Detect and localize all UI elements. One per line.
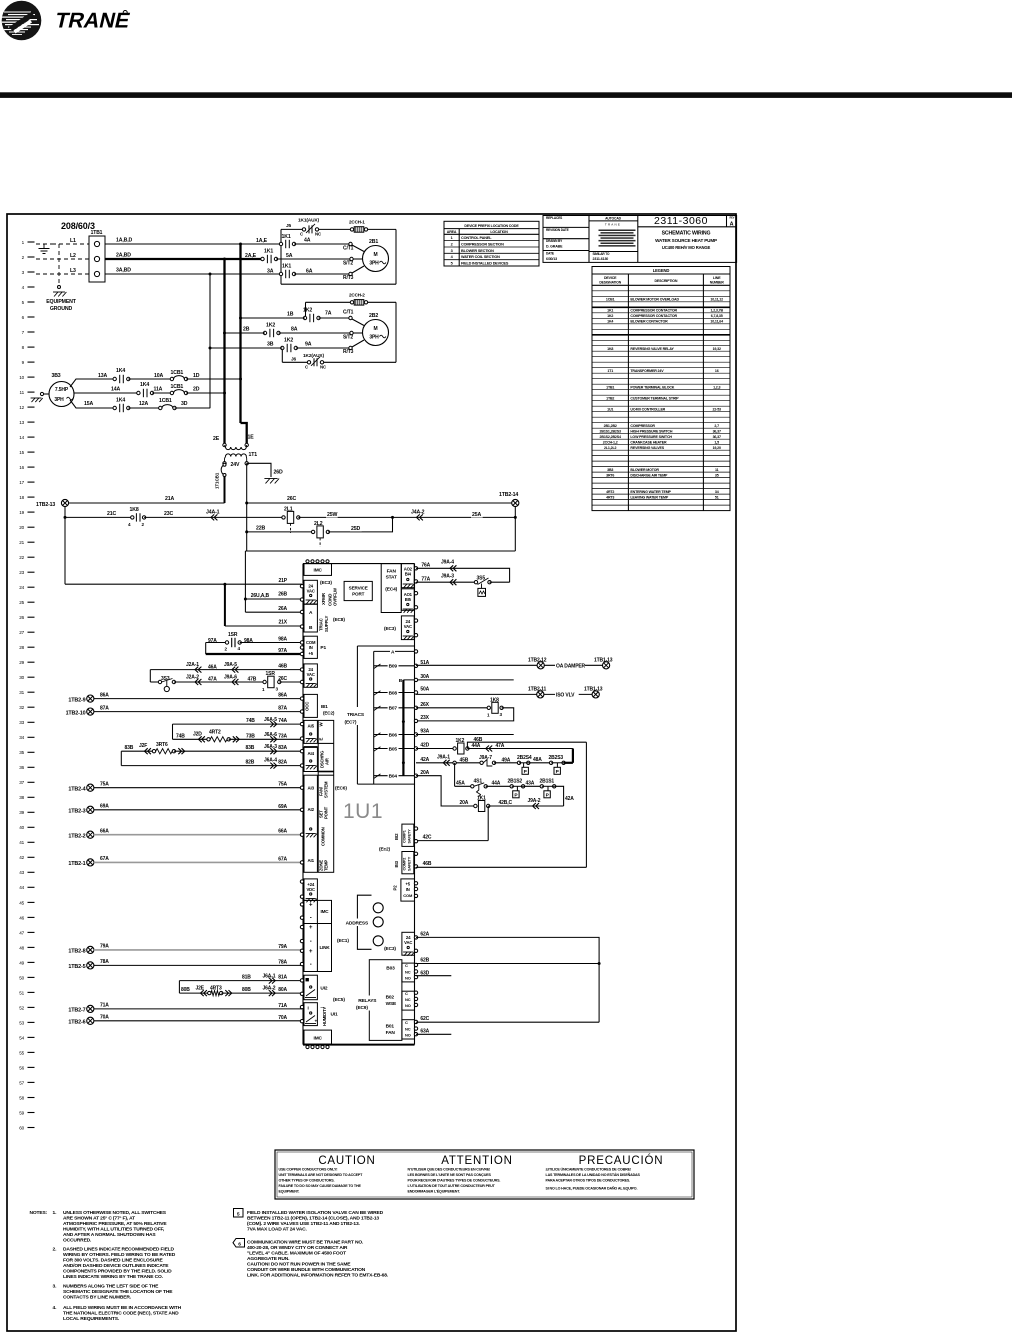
svg-text:35: 35 <box>19 750 24 755</box>
port IMC LINK <box>300 900 331 971</box>
address switches <box>345 895 384 949</box>
svg-text:20: 20 <box>19 525 24 530</box>
svg-text:5A: 5A <box>286 253 293 259</box>
svg-text:1K2: 1K2 <box>303 308 312 314</box>
svg-text:TEMP: TEMP <box>324 860 329 871</box>
svg-text:PRECAUCIÓN: PRECAUCIÓN <box>579 1154 664 1167</box>
svg-text:NO: NO <box>405 1003 411 1008</box>
triac B05 wire 42D <box>374 743 430 753</box>
svg-text:N'UTILISER QUE DES CONDUCTEURS: N'UTILISER QUE DES CONDUCTEURS EN CUIVRE… <box>408 1168 491 1172</box>
wire 6A to R/T3 <box>267 266 364 281</box>
svg-text:26B: 26B <box>278 592 287 598</box>
svg-text:B04: B04 <box>389 774 398 780</box>
svg-text:51: 51 <box>715 495 719 499</box>
triacs box EC7 <box>345 646 415 784</box>
svg-text:1TB2-14: 1TB2-14 <box>499 492 518 498</box>
svg-text:18: 18 <box>19 495 24 500</box>
svg-text:DEVICE: DEVICE <box>604 276 617 280</box>
wire 63A stub <box>416 1028 451 1034</box>
svg-text:2L1: 2L1 <box>284 507 293 513</box>
svg-text:CRANKCASE HEATER: CRANKCASE HEATER <box>630 440 667 444</box>
svg-text:DRAWN BY: DRAWN BY <box>546 239 563 243</box>
svg-text:COMMUNICATION WIRE MUST BE TRA: COMMUNICATION WIRE MUST BE TRANE PART NO… <box>247 1240 364 1246</box>
svg-text:BLOWER MOTOR OVERLOAD: BLOWER MOTOR OVERLOAD <box>630 298 679 302</box>
wire 15A line 12 <box>70 400 115 408</box>
svg-text:1T1: 1T1 <box>249 452 258 458</box>
svg-text:J6: J6 <box>291 357 297 363</box>
svg-text:38: 38 <box>19 795 24 800</box>
svg-text:D. GRABE: D. GRABE <box>546 245 563 249</box>
note 5 flag <box>234 1209 384 1233</box>
svg-text:A: A <box>730 221 734 227</box>
svg-text:14A: 14A <box>111 387 120 393</box>
breaker 1CB1 line 10 <box>170 370 188 381</box>
wire 1T1CB1 to 21A <box>224 477 226 504</box>
wire 81A loop <box>179 974 302 994</box>
svg-text:1TB2: 1TB2 <box>606 396 614 400</box>
svg-text:AUTOCAD: AUTOCAD <box>605 216 622 220</box>
wire 5A to S/T2 <box>245 253 363 267</box>
svg-text:77A: 77A <box>421 576 430 582</box>
svg-text:2B1S1: 2B1S1 <box>540 778 555 784</box>
terminal 1TB2-11 <box>537 691 544 698</box>
wire 1A,B,D line 1 <box>105 238 281 246</box>
svg-text:44: 44 <box>19 885 24 890</box>
svg-text:2B1S2: 2B1S2 <box>508 778 523 784</box>
svg-text:HUMIDITY, WITH ALL UTILITIES T: HUMIDITY, WITH ALL UTILITIES TURNED OFF, <box>63 1227 165 1233</box>
svg-text:20A: 20A <box>420 770 429 776</box>
svg-text:4RT2: 4RT2 <box>209 730 221 736</box>
svg-text:78A: 78A <box>100 959 109 965</box>
svg-text:BI4: BI4 <box>405 572 412 577</box>
temp sensor 4RT3 row 80B <box>179 985 302 996</box>
svg-text:WIRING BY OTHERS. FIELD WIRING: WIRING BY OTHERS. FIELD WIRING TO BE RAT… <box>63 1252 176 1258</box>
svg-text:50: 50 <box>19 975 24 980</box>
svg-text:3S5: 3S5 <box>477 575 486 581</box>
svg-text:62B: 62B <box>420 958 429 964</box>
svg-text:70A: 70A <box>100 1015 109 1021</box>
svg-text:3A,BD: 3A,BD <box>116 268 131 274</box>
svg-text:WATER COIL SECTION: WATER COIL SECTION <box>461 255 500 259</box>
svg-text:15: 15 <box>19 450 24 455</box>
svg-text:LEAVING WATER TEMP: LEAVING WATER TEMP <box>630 495 668 499</box>
wire 1D <box>186 373 241 379</box>
svg-text:2B1S2,2B2S4: 2B1S2,2B2S4 <box>600 435 621 439</box>
svg-text:1U1: 1U1 <box>607 407 613 411</box>
svg-text:DESIGNATION: DESIGNATION <box>599 281 621 285</box>
svg-text:FOR 300 VOLTS. DASHED LINE ENC: FOR 300 VOLTS. DASHED LINE ENCLOSURE <box>63 1258 164 1264</box>
svg-text:AI2: AI2 <box>308 807 315 812</box>
svg-text:17: 17 <box>19 480 24 485</box>
svg-text:REPLACES: REPLACES <box>546 216 562 220</box>
controller 1U1 outline <box>303 564 415 1045</box>
svg-text:1K1: 1K1 <box>607 309 613 313</box>
svg-text:CONDUIT OR WIRE BUNDLE WITH CO: CONDUIT OR WIRE BUNDLE WITH COMMUNICATIO… <box>247 1267 366 1273</box>
svg-text:B09: B09 <box>389 664 398 670</box>
svg-text:1TB1: 1TB1 <box>606 385 614 389</box>
svg-text:(EC1): (EC1) <box>337 938 349 944</box>
contact 1K2 line 6 <box>303 308 320 323</box>
svg-text:1K2(AUX): 1K2(AUX) <box>303 353 324 359</box>
svg-text:J9A-4: J9A-4 <box>441 560 454 566</box>
terminal 1TB2-1 wire 67A <box>68 856 302 867</box>
svg-text:47A: 47A <box>208 677 217 683</box>
svg-text:79A: 79A <box>100 944 109 950</box>
label EC6 <box>335 786 347 792</box>
svg-text:(EC8): (EC8) <box>333 617 345 623</box>
svg-text:HUMIDITY: HUMIDITY <box>322 1007 327 1026</box>
breaker 1CB1 line 12 <box>159 398 177 410</box>
wire 51A OA damper <box>416 657 603 669</box>
svg-text:2: 2 <box>451 243 453 247</box>
svg-text:LINK. FOR ADDITIONAL INFORMATI: LINK. FOR ADDITIONAL INFORMATION REFER T… <box>247 1273 389 1279</box>
svg-text:"LEVEL 4" CABLE. MAXIMUM OF 45: "LEVEL 4" CABLE. MAXIMUM OF 4500 FOOT <box>247 1251 346 1257</box>
svg-text:34: 34 <box>19 735 24 740</box>
svg-text:80A: 80A <box>278 987 287 993</box>
svg-text:ALL FIELD WIRING MUST BE IN AC: ALL FIELD WIRING MUST BE IN ACCORDANCE W… <box>63 1305 182 1311</box>
svg-text:1TB2-3: 1TB2-3 <box>68 809 85 815</box>
svg-text:B03: B03 <box>386 966 395 972</box>
blower motor 3B3 <box>49 373 74 407</box>
svg-text:46A: 46A <box>208 664 217 670</box>
svg-text:2,7: 2,7 <box>714 424 719 428</box>
svg-text:LOW PRESSURE SWITCH: LOW PRESSURE SWITCH <box>630 435 672 439</box>
svg-text:REVERSING VALVES: REVERSING VALVES <box>630 446 664 450</box>
svg-text:46B: 46B <box>278 664 287 670</box>
svg-text:42A: 42A <box>420 757 429 763</box>
wire 63D stub <box>416 970 451 976</box>
svg-text:2E: 2E <box>213 436 220 442</box>
svg-text:WATER SOURCE HEAT PUMP: WATER SOURCE HEAT PUMP <box>655 238 717 243</box>
svg-text:IN: IN <box>309 645 313 650</box>
svg-text:DESCRIPTION: DESCRIPTION <box>654 279 677 283</box>
svg-text:NC: NC <box>405 1027 411 1032</box>
svg-text:COMPRESSOR SECTION: COMPRESSOR SECTION <box>461 243 504 247</box>
svg-text:1TB2-12: 1TB2-12 <box>528 657 547 663</box>
breaker 1T1CB1 <box>215 463 227 489</box>
svg-text:1K8: 1K8 <box>490 698 499 704</box>
terminal 1TB2-6 wire 70A <box>68 1015 302 1026</box>
svg-text:AND/OR DASHED DEVICE OUTLINES: AND/OR DASHED DEVICE OUTLINES INDICATE <box>63 1263 169 1269</box>
svg-text:47A: 47A <box>496 743 505 749</box>
svg-text:NO: NO <box>405 975 411 980</box>
triac output A <box>374 649 418 656</box>
svg-text:1TB2-4: 1TB2-4 <box>68 787 85 793</box>
svg-text:46B: 46B <box>474 737 483 743</box>
triac B09 wire 51A <box>374 660 430 670</box>
svg-text:C/T1: C/T1 <box>343 246 354 252</box>
wire 26U,A,B to 26B <box>245 592 302 600</box>
svg-text:98A: 98A <box>244 638 253 644</box>
port AO1 BI5 <box>401 589 417 613</box>
wire 26C vertical from transformer <box>245 463 248 551</box>
svg-text:29: 29 <box>19 660 24 665</box>
svg-text:1TB2-5: 1TB2-5 <box>68 964 85 970</box>
svg-text:STAT: STAT <box>386 575 397 581</box>
svg-text:IMC: IMC <box>314 568 323 574</box>
wire 1TB2-13 drop <box>64 506 67 584</box>
svg-text:3B: 3B <box>267 342 274 348</box>
svg-text:25: 25 <box>19 600 24 605</box>
thick 47A drop <box>572 749 574 763</box>
svg-text:37: 37 <box>19 780 24 785</box>
svg-text:1CB1: 1CB1 <box>171 384 184 390</box>
svg-text:CUSTOMER TERMINAL STRIP: CUSTOMER TERMINAL STRIP <box>630 396 679 400</box>
svg-text:UNLESS OTHERWISE NOTED, ALL SW: UNLESS OTHERWISE NOTED, ALL SWITCHES <box>63 1210 167 1216</box>
svg-text:TRIACS: TRIACS <box>347 712 365 718</box>
wire 45A drop <box>454 763 456 787</box>
svg-text:1U1: 1U1 <box>343 800 383 823</box>
svg-text:COMPRESSOR CONTACTOR: COMPRESSOR CONTACTOR <box>630 309 677 313</box>
svg-text:VAC: VAC <box>404 940 412 945</box>
svg-text:36,37: 36,37 <box>713 435 721 439</box>
svg-text:21P: 21P <box>279 578 288 584</box>
svg-text:2B2S3: 2B2S3 <box>549 755 564 761</box>
svg-text:VAC: VAC <box>307 589 315 594</box>
port AI3 AI2 AI1 <box>300 775 317 872</box>
L1 feeder vertical <box>239 244 247 445</box>
svg-text:BI2: BI2 <box>394 833 399 840</box>
svg-text:RELAYS: RELAYS <box>358 998 377 1004</box>
relay B02 contacts <box>402 991 418 1010</box>
svg-text:FAN: FAN <box>386 1030 396 1036</box>
labels XFMR COND OVRFLW <box>321 587 338 606</box>
svg-text:UC400 REH/V MO RANGE: UC400 REH/V MO RANGE <box>662 245 711 250</box>
svg-text:AI5: AI5 <box>308 723 315 728</box>
svg-text:1TB2-7: 1TB2-7 <box>68 1008 85 1014</box>
svg-text:PORT: PORT <box>352 592 365 597</box>
svg-text:45: 45 <box>19 900 24 905</box>
svg-text:BI3: BI3 <box>394 860 399 867</box>
svg-text:C/T1: C/T1 <box>343 310 354 316</box>
svg-text:AI1: AI1 <box>308 858 315 863</box>
wire 12A <box>128 401 160 408</box>
svg-text:26: 26 <box>19 615 24 620</box>
condensate overflow switch 3S3 <box>150 676 175 692</box>
triac wire 42A with pressure switches <box>416 755 573 776</box>
svg-text:SCHEMATIC WIRING: SCHEMATIC WIRING <box>662 230 711 236</box>
svg-text:73B: 73B <box>246 733 255 739</box>
thick B supply vertical <box>399 678 405 776</box>
svg-text:DATE: DATE <box>546 251 554 255</box>
svg-text:21A: 21A <box>165 496 174 502</box>
svg-text:1K2: 1K2 <box>607 314 613 318</box>
svg-text:VDC: VDC <box>306 887 315 892</box>
svg-text:36: 36 <box>19 765 24 770</box>
svg-text:1CB1: 1CB1 <box>606 298 615 302</box>
svg-text:1TB1: 1TB1 <box>91 230 103 236</box>
svg-text:62C: 62C <box>420 1016 429 1022</box>
svg-text:M: M <box>373 252 377 258</box>
svg-text:(Ec2): (Ec2) <box>379 847 391 853</box>
svg-text:87A: 87A <box>278 706 287 712</box>
terminal 1TB2-4 wire 75A <box>68 782 302 793</box>
power terminal block 1TB1 <box>89 230 105 282</box>
contact 1K2 line 7 <box>263 323 280 338</box>
svg-text:74A: 74A <box>278 718 287 724</box>
compressor motor 2B2 <box>363 313 389 346</box>
svg-text:7A: 7A <box>325 311 332 317</box>
svg-text:UC400 CONTROLLER: UC400 CONTROLLER <box>630 407 665 411</box>
svg-text:1TB2-9: 1TB2-9 <box>68 698 85 704</box>
svg-text:12: 12 <box>19 405 24 410</box>
svg-text:16: 16 <box>715 369 719 373</box>
svg-text:COM: COM <box>403 893 413 898</box>
svg-text:P2: P2 <box>393 885 398 891</box>
svg-text:+: + <box>315 1020 318 1025</box>
svg-text:1,2,3: 1,2,3 <box>713 385 720 389</box>
wire 46B bottom <box>416 861 586 867</box>
svg-text:1K4: 1K4 <box>116 368 125 374</box>
svg-text:26U,A,B: 26U,A,B <box>251 593 270 599</box>
svg-text:56: 56 <box>19 1065 24 1070</box>
svg-text:8A: 8A <box>291 327 298 333</box>
svg-text:B01: B01 <box>386 1024 395 1030</box>
svg-text:10,11,64: 10,11,64 <box>710 320 723 324</box>
wire 97A thick <box>206 643 302 655</box>
svg-text:J4A-2: J4A-2 <box>411 510 425 516</box>
svg-text:BETWEEN 1TB2-11 (OPEN), 1TB2-1: BETWEEN 1TB2-11 (OPEN), 1TB2-14 (CLOSE),… <box>247 1216 379 1222</box>
svg-text:BI1: BI1 <box>321 704 328 709</box>
svg-text:SAFETY: SAFETY <box>408 829 412 844</box>
wire 42C <box>416 806 488 841</box>
svg-text:1T1CB1: 1T1CB1 <box>215 472 220 489</box>
svg-text:(EC2): (EC2) <box>323 711 335 716</box>
svg-text:1TB1-13: 1TB1-13 <box>594 657 613 663</box>
svg-text:75A: 75A <box>100 782 109 788</box>
svg-text:B06: B06 <box>389 732 398 738</box>
svg-text:1TB2-10: 1TB2-10 <box>66 711 86 717</box>
svg-text:12A: 12A <box>139 401 148 407</box>
transformer 1T1 <box>213 435 257 469</box>
svg-text:11: 11 <box>715 468 719 472</box>
svg-text:83B: 83B <box>125 745 134 751</box>
svg-text:COMPRESSOR CONTACTOR: COMPRESSOR CONTACTOR <box>630 314 677 318</box>
field wiring dashed lines L1 L2 L3 <box>36 238 89 287</box>
svg-text:ENDOMMAGER L'ÉQUIPEMENT.: ENDOMMAGER L'ÉQUIPEMENT. <box>408 1188 461 1193</box>
svg-text:1K4: 1K4 <box>140 382 149 388</box>
svg-text:B02: B02 <box>386 995 395 1001</box>
svg-text:1SR: 1SR <box>228 632 238 638</box>
svg-text:67A: 67A <box>100 856 109 862</box>
wire 14A line 11 <box>74 387 138 394</box>
svg-text:40: 40 <box>19 825 24 830</box>
svg-text:43: 43 <box>19 870 24 875</box>
svg-text:1CB1: 1CB1 <box>171 370 184 376</box>
connector J4A-1 <box>206 510 220 521</box>
crankcase heater 2CCH-2 <box>349 293 368 306</box>
svg-text:21C: 21C <box>107 511 116 517</box>
svg-text:1SR: 1SR <box>266 671 276 677</box>
ground at 3B3 <box>31 392 49 402</box>
controller inner column <box>318 720 334 872</box>
svg-text:C: C <box>405 991 408 996</box>
svg-text:B07: B07 <box>389 706 398 712</box>
svg-text:IN: IN <box>406 887 410 892</box>
svg-text:¡UTILICE ÚNICAMENTE CONDUCTORE: ¡UTILICE ÚNICAMENTE CONDUCTORES DE COBRE… <box>546 1167 631 1172</box>
wire 4A to C/T1 <box>256 238 364 252</box>
svg-text:87A: 87A <box>100 706 109 712</box>
svg-text:TRANE: TRANE <box>53 8 133 33</box>
svg-text:1K2: 1K2 <box>284 338 293 344</box>
svg-text:POINT: POINT <box>324 806 329 819</box>
svg-text:16: 16 <box>19 465 24 470</box>
svg-text:1K1(AUX): 1K1(AUX) <box>298 218 319 224</box>
svg-text:NC: NC <box>320 365 327 370</box>
port 24VAC 2 <box>300 664 317 687</box>
svg-text:-: - <box>310 939 312 945</box>
svg-text:BLOWER SECTION: BLOWER SECTION <box>461 249 494 253</box>
terminal 1TB2-8 wire 79A <box>68 944 302 955</box>
port +24 VDC <box>300 879 317 902</box>
svg-text:54: 54 <box>19 1035 24 1040</box>
svg-text:SAFETY: SAFETY <box>408 856 412 871</box>
wire 25W 25A <box>298 511 517 519</box>
svg-text:28: 28 <box>19 645 24 650</box>
TRANE wordmark <box>53 8 133 33</box>
svg-text:13A: 13A <box>98 373 107 379</box>
svg-text:14: 14 <box>19 435 24 440</box>
wire 2B 8A to S/T2 2B2 <box>225 327 363 341</box>
svg-text:19,20: 19,20 <box>713 446 721 450</box>
svg-text:76A: 76A <box>421 562 430 568</box>
svg-text:58: 58 <box>19 1095 24 1100</box>
svg-text:83A: 83A <box>278 745 287 751</box>
triac B06 wire 93A <box>374 729 514 739</box>
svg-text:70A: 70A <box>278 1015 287 1021</box>
wire 26C <box>247 496 512 503</box>
wire 98A <box>240 637 302 643</box>
terminal 1TB2-13 <box>36 499 69 508</box>
svg-text:E: E <box>319 738 324 741</box>
svg-text:LES BORNES DE L'UNITE NE SONT: LES BORNES DE L'UNITE NE SONT PAS CONÇUE… <box>408 1173 492 1177</box>
service port box <box>344 581 372 600</box>
svg-text:2CCH-1: 2CCH-1 <box>349 220 365 225</box>
terminal 1TB1-13 oa <box>594 657 613 669</box>
svg-text:1,5: 1,5 <box>714 440 719 444</box>
wire 2A,BD line 2 <box>105 253 263 261</box>
svg-text:5: 5 <box>237 1211 240 1217</box>
svg-text:1E: 1E <box>248 435 255 441</box>
svg-text:IMC: IMC <box>314 1036 323 1042</box>
svg-text:1K1: 1K1 <box>282 264 291 270</box>
svg-text:42: 42 <box>19 855 24 860</box>
svg-text:XFMR: XFMR <box>321 592 326 605</box>
svg-text:49: 49 <box>19 960 24 965</box>
svg-text:1TB2-1: 1TB2-1 <box>68 861 85 867</box>
switch row 45A 4S1 2B1S2 2B1S1 <box>455 778 575 806</box>
svg-text:26C: 26C <box>287 496 296 502</box>
svg-text:1K1: 1K1 <box>477 796 486 802</box>
svg-text:26D: 26D <box>274 470 283 476</box>
svg-text:OCC: OCC <box>305 701 310 711</box>
svg-text:UI1: UI1 <box>331 1012 338 1018</box>
svg-text:86A: 86A <box>100 693 109 699</box>
terminal 1TB2-12 <box>537 662 544 669</box>
contact 1K4 line 12 <box>113 398 130 413</box>
terminal 1TB2-9 wire 86A <box>68 693 302 704</box>
earth ground at service entrance <box>36 244 52 254</box>
svg-text:WSE: WSE <box>386 1001 397 1007</box>
svg-text:1TB2-2: 1TB2-2 <box>68 834 85 840</box>
svg-text:(EC4): (EC4) <box>385 587 397 593</box>
svg-text:10: 10 <box>19 375 24 380</box>
svg-text:13: 13 <box>19 420 24 425</box>
svg-text:74B: 74B <box>176 733 185 739</box>
wire 3B 9A to R/T3 2B2 <box>210 340 364 355</box>
svg-text:11A: 11A <box>154 387 163 393</box>
port COM IN +5 P1 <box>300 636 326 658</box>
